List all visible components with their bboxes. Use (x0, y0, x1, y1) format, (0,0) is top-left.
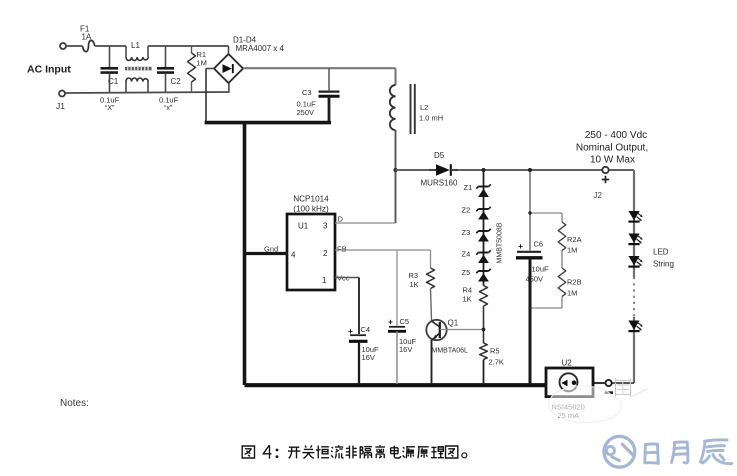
connector J1 pin bottom (59, 91, 65, 97)
capacitor C3 (328, 68, 330, 90)
watermark blob (548, 386, 621, 422)
svg-text:1M: 1M (567, 246, 577, 255)
svg-text:Gnd: Gnd (264, 245, 278, 254)
svg-text:C5: C5 (400, 317, 410, 326)
svg-text:(100 kHz): (100 kHz) (293, 205, 329, 214)
svg-text:AC Input: AC Input (27, 64, 71, 76)
connector J2 terminal + (602, 167, 608, 173)
svg-text:1.0 mH: 1.0 mH (419, 114, 443, 123)
zener Z4 (478, 252, 488, 254)
svg-text:LED: LED (653, 248, 669, 257)
svg-text:0.1uF: 0.1uF (159, 96, 179, 105)
svg-text:R4: R4 (463, 286, 473, 295)
connector J2 terminal - (606, 380, 612, 386)
svg-text:450V: 450V (526, 275, 544, 284)
svg-text:1: 1 (322, 276, 327, 285)
svg-text:250 - 400 Vdc: 250 - 400 Vdc (585, 130, 647, 141)
wire (228, 83, 230, 93)
caption char 1 (305, 446, 306, 448)
wire (95, 45, 126, 47)
caption char 3 (332, 447, 334, 448)
ic U2 NSI45020 (546, 368, 593, 397)
caption char 图 (242, 446, 254, 458)
svg-text:C6: C6 (534, 240, 544, 249)
svg-text:“X”: “X” (105, 105, 115, 112)
resistor R3 (427, 268, 435, 289)
svg-text:D: D (338, 215, 344, 224)
ic U1 NCP1014 (287, 214, 335, 290)
svg-text:C2: C2 (171, 77, 182, 86)
svg-text:Z5: Z5 (462, 268, 471, 277)
svg-text:Z2: Z2 (462, 206, 471, 215)
svg-text:2.7K: 2.7K (489, 358, 504, 367)
svg-text:L2: L2 (420, 103, 428, 112)
capacitor C2 (165, 46, 167, 67)
wire D pin (335, 222, 396, 224)
wire (65, 92, 229, 93)
svg-text:+: + (518, 241, 523, 251)
svg-text:D5: D5 (434, 151, 445, 160)
wire (228, 46, 230, 54)
wire (612, 382, 634, 384)
svg-text:U1: U1 (298, 222, 309, 231)
wire (66, 45, 83, 47)
svg-text:1A: 1A (82, 33, 92, 42)
caption char 10 (431, 446, 436, 448)
caption char 8 (403, 447, 404, 448)
resistor R5 (480, 343, 488, 359)
bridge rectifier D1-D4 (214, 54, 243, 83)
connector J1 pin top (60, 43, 66, 49)
capacitor C1 (109, 46, 111, 67)
fuse F1 (83, 40, 95, 51)
wire (206, 68, 214, 70)
wire (395, 130, 397, 223)
caption char 4 (263, 445, 271, 458)
svg-text:16V: 16V (399, 345, 412, 354)
svg-text:MMBT5008B: MMBT5008B (497, 222, 504, 263)
svg-text:R2A: R2A (567, 235, 582, 244)
caption char 6 (379, 445, 381, 446)
resistor R2A (530, 212, 562, 214)
svg-text:U2: U2 (562, 359, 573, 368)
svg-text:10 W Max: 10 W Max (590, 155, 635, 166)
svg-text:MMBTA06L: MMBTA06L (432, 348, 469, 355)
capacitor C5 (396, 250, 398, 326)
led LED4 (628, 321, 639, 330)
wire FB (335, 249, 431, 251)
svg-text:+: + (388, 317, 393, 327)
svg-text:0.1uF: 0.1uF (100, 96, 120, 105)
svg-text:J2: J2 (594, 191, 603, 200)
inductor L2 (390, 85, 396, 130)
svg-text:2: 2 (323, 249, 328, 258)
logo char ri (643, 445, 647, 463)
node base junction (482, 328, 486, 332)
wire (148, 45, 229, 47)
svg-text:MRA4007 x 4: MRA4007 x 4 (236, 44, 285, 53)
caption char 0 (289, 446, 299, 448)
svg-text:“x”: “x” (164, 105, 173, 112)
logo char chen (705, 440, 728, 441)
caption full stop (462, 453, 467, 458)
transistor Q1 (426, 320, 446, 340)
svg-text:R2B: R2B (567, 278, 582, 287)
caption char 5 (359, 446, 361, 458)
capacitor C6 (529, 170, 531, 251)
svg-text:3: 3 (323, 222, 328, 231)
svg-text:1M: 1M (197, 59, 207, 68)
svg-text:C4: C4 (361, 325, 371, 334)
zener Z5 (478, 270, 488, 272)
svg-text:C3: C3 (302, 88, 312, 97)
svg-text:L1: L1 (131, 41, 140, 50)
node (482, 168, 486, 172)
wire Vcc pin (335, 277, 359, 279)
svg-text:Nominal Output,: Nominal Output, (576, 143, 648, 154)
wire DC+ rail (243, 67, 396, 69)
svg-text:Notes:: Notes: (60, 398, 89, 409)
wire LED string (633, 170, 635, 277)
diode D5 (429, 163, 453, 177)
watermark stamp grid (615, 379, 617, 398)
svg-text:10uF: 10uF (532, 265, 550, 274)
led LED2 (628, 234, 639, 243)
caption char 2 (317, 446, 319, 459)
svg-text:FB: FB (337, 245, 347, 254)
resistor R4 (480, 286, 488, 307)
svg-text:Z4: Z4 (462, 250, 471, 259)
wire primary ground bus (205, 121, 331, 125)
svg-text:1K: 1K (463, 295, 472, 304)
svg-text:NCP1014: NCP1014 (293, 195, 329, 204)
zener Z3 (478, 230, 488, 232)
caption char 9 (418, 446, 429, 448)
svg-text:String: String (653, 260, 674, 269)
svg-text:C1: C1 (108, 77, 119, 86)
zener Z2 (478, 208, 488, 210)
wire output rail (396, 169, 635, 171)
led LED3 (628, 256, 639, 265)
svg-text:R5: R5 (490, 347, 500, 356)
logo char yue (672, 443, 675, 463)
resistor R2B (561, 251, 563, 269)
svg-text:1M: 1M (567, 289, 577, 298)
caption colon (276, 449, 279, 452)
svg-text:R3: R3 (409, 271, 419, 280)
wire zener chain (483, 170, 485, 286)
wire (594, 382, 606, 384)
caption char 11 (446, 446, 458, 458)
zener Z1 (478, 186, 488, 188)
node drain junction (394, 168, 398, 172)
svg-text:Z3: Z3 (462, 228, 471, 237)
svg-text:J1: J1 (56, 101, 65, 111)
logo watermark ring (604, 436, 635, 467)
led LED1 (628, 211, 639, 220)
svg-text:4: 4 (291, 251, 296, 260)
caption char 4 (348, 446, 350, 459)
svg-text:1K: 1K (410, 280, 419, 289)
svg-text:MURS160: MURS160 (421, 179, 458, 188)
resistor R1 (191, 46, 193, 53)
svg-text:Q1: Q1 (448, 319, 459, 328)
svg-text:Z1: Z1 (464, 183, 473, 192)
svg-text:16V: 16V (362, 353, 375, 362)
svg-text:250V: 250V (297, 108, 315, 117)
wire Gnd pin (246, 252, 287, 255)
caption char 7 (391, 447, 398, 449)
